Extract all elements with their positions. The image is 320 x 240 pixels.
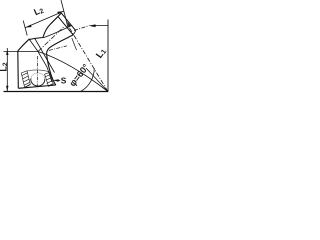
pipe body: upper end face front line F1: [58, 16, 73, 35]
seam extension line horizontal: [4, 51, 39, 53]
pipe body: left wall: [17, 51, 20, 88]
axis dash-dot from vertex V to upper face center: [67, 24, 108, 92]
L2top right extension line: [61, 0, 68, 28]
slanted line from hub O to vertex V: [38, 52, 108, 92]
hatch patch right band outline: [45, 72, 54, 86]
pipe body: bottom face front edge: [18, 85, 56, 88]
pipe body: outer arc: [18, 13, 62, 51]
arrowhead at face end of axis (L1 dimension): [67, 21, 71, 26]
hatch lines right: [45, 75, 53, 87]
upper leg axis dash-dot from hub: [38, 26, 65, 51]
dimension L2 left: vertical line with arrows: [6, 48, 8, 91]
inner curve alpha across body to face back line: [44, 26, 72, 38]
hatch lines left: [22, 73, 30, 87]
far edge of bottom annulus: [27, 70, 50, 72]
horizontal dimension piece top right with left arrow: [94, 24, 108, 26]
dimension L2 top: line with arrows: [25, 11, 63, 27]
pipe body: upper end face back line F2: [61, 13, 76, 31]
pipe body: inner boundary beta: [47, 35, 74, 85]
right vertical extension line: [107, 20, 109, 92]
seam 1 through hub: [29, 39, 52, 82]
bore opening top: faint arc: [31, 73, 45, 79]
hatch patch left band outline: [21, 71, 30, 88]
seam 2: [35, 38, 55, 73]
shallow dash-dot continuation toward face: [74, 26, 89, 31]
angle dimension arc phi: [81, 68, 95, 91]
face band bottom cap: [73, 31, 76, 35]
svg-text:L2: L2: [0, 62, 9, 72]
face plane extension below inner corner: [72, 38, 77, 50]
lower leg axis dash-dot: [36, 56, 38, 89]
gamma dash-dot: [49, 46, 67, 51]
L2top left extension line: [23, 21, 27, 36]
baseline (table line): [4, 91, 109, 93]
bore opening bottom: lower arc strong: [31, 78, 45, 86]
extra fan line from vertex: [86, 68, 108, 91]
svg-text:S: S: [61, 75, 67, 85]
